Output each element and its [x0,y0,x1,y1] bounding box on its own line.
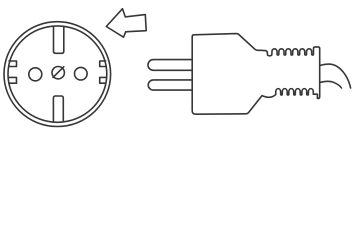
cord lower line [320,81,341,88]
socket right notch upper tab [100,61,106,67]
socket top earth slot [54,26,64,53]
socket left pin hole [29,68,42,81]
socket left notch lower tab [9,77,17,83]
socket outer circle [4,22,111,127]
socket right notch lower tab [100,77,106,83]
socket inner circle [8,26,107,122]
socket bottom earth slot [53,96,63,122]
plug lower prong [148,80,192,90]
socket center marked hole [52,67,64,79]
cord upper line [320,64,350,88]
socket center hole slash [53,67,64,78]
plug upper prong [148,60,192,71]
plug body with strain relief [192,34,320,115]
socket left notch upper tab [9,61,17,67]
arrow pointing left [106,9,146,38]
socket right pin hole [75,67,88,80]
